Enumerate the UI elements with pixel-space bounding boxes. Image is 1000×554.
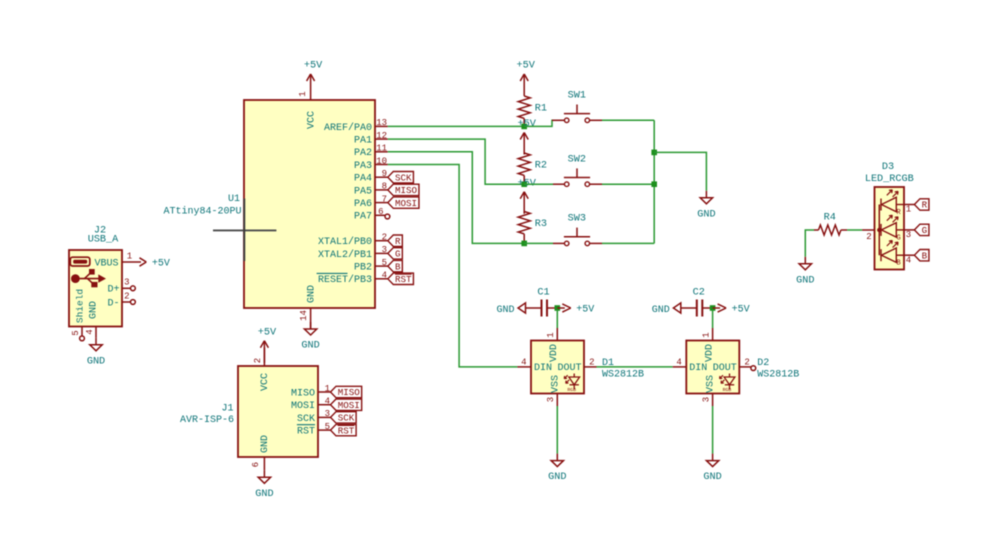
power +5V at J2 VBUS [140, 258, 147, 262]
svg-text:VCC: VCC [307, 111, 318, 129]
D3 pin 1 R [904, 204, 914, 206]
global label SCK at J1 [331, 412, 357, 423]
svg-text:SW2: SW2 [568, 155, 586, 166]
ground at R4 [804, 257, 806, 264]
svg-text:D-: D- [107, 298, 119, 309]
U1 pin 8 PA5 [375, 189, 388, 191]
svg-text:D3: D3 [882, 162, 894, 173]
ground at switch bus [705, 191, 707, 198]
svg-text:GND: GND [89, 301, 100, 319]
U1 pin 1 VCC [310, 96, 312, 101]
svg-text:5: 5 [71, 330, 81, 335]
svg-text:12: 12 [376, 131, 387, 141]
wire +5V junction to D1 VDD [556, 310, 558, 328]
svg-text:MOSI: MOSI [395, 198, 417, 209]
svg-text:SW3: SW3 [568, 214, 586, 225]
switch SW1 [552, 119, 564, 121]
svg-text:+5V: +5V [517, 61, 536, 72]
svg-text:4: 4 [906, 255, 911, 265]
svg-text:G: G [395, 249, 401, 260]
D2 pin 1 VDD [712, 328, 714, 341]
U1 pin 11 PA2 [375, 151, 388, 153]
switch SW3 [553, 242, 564, 244]
svg-text:J1: J1 [221, 404, 233, 415]
svg-text:+5V: +5V [732, 305, 750, 316]
svg-text:1: 1 [906, 205, 911, 215]
svg-text:U1: U1 [228, 194, 240, 205]
LED D3 body LED_RCGB [875, 187, 905, 270]
D1 pin 2 DOUT [584, 366, 597, 368]
J2 pin 1 VBUS [122, 261, 141, 263]
svg-text:GND: GND [548, 472, 566, 483]
svg-text:MOSI: MOSI [338, 400, 360, 411]
junction C2 +5V [710, 305, 716, 311]
svg-text:ATtiny84-20PU: ATtiny84-20PU [163, 206, 241, 218]
wire D1 VSS to ground [556, 406, 558, 454]
svg-text:+5V: +5V [518, 119, 537, 130]
D3 pin 2 common [862, 229, 874, 231]
svg-text:RGB: RGB [567, 387, 576, 393]
power +5V at U1 VCC [310, 74, 312, 96]
svg-text:PB2: PB2 [354, 263, 372, 274]
junction R2-PA1-SW2 [521, 181, 527, 187]
junction C1 +5V [555, 305, 561, 311]
wire PA1 to R2 junction [388, 139, 522, 184]
connector J2 body USB_A [69, 250, 122, 327]
svg-text:2: 2 [124, 291, 129, 301]
svg-text:USB_A: USB_A [88, 235, 119, 246]
svg-text:4: 4 [325, 397, 330, 407]
wire D1 DOUT to D2 DIN [597, 366, 673, 368]
wire bus to GND [654, 152, 706, 190]
svg-text:B: B [395, 261, 401, 272]
junction R3-PA2-SW3 [521, 241, 527, 247]
svg-text:2: 2 [744, 357, 749, 367]
svg-text:8: 8 [382, 182, 387, 192]
svg-text:RST: RST [338, 425, 355, 436]
svg-text:SCK: SCK [338, 413, 355, 424]
global label SCK at U1 PA4 [388, 172, 414, 183]
U1 pin 14 GND [310, 308, 312, 329]
switch common bus wire [653, 120, 655, 243]
J1 pin 3 SCK [318, 416, 331, 418]
global label MISO at U1 PA5 [388, 184, 419, 195]
svg-text:+5V: +5V [152, 259, 170, 270]
wire R1 junction to SW1 [524, 120, 553, 126]
svg-text:3: 3 [124, 278, 129, 288]
svg-text:PA6: PA6 [354, 199, 372, 210]
svg-text:DOUT: DOUT [557, 363, 581, 374]
svg-text:SW1: SW1 [568, 91, 586, 102]
LED D2 body WS2812B [686, 341, 739, 394]
global label R at U1 PB0 [388, 235, 403, 246]
wire SW2 to bus [602, 183, 654, 185]
svg-text:SCK: SCK [297, 414, 315, 425]
svg-text:7: 7 [382, 194, 387, 204]
svg-text:10: 10 [376, 156, 387, 166]
power +5V at R3 [523, 192, 525, 214]
svg-text:3: 3 [382, 245, 387, 255]
D3 pin 4 B [904, 254, 914, 256]
D1 pin 3 VSS [556, 394, 558, 407]
svg-text:MISO: MISO [291, 388, 315, 399]
U1 pin 5 PB2 [375, 265, 388, 267]
svg-text:RST: RST [297, 427, 315, 438]
U1 pin 7 PA6 [375, 202, 388, 204]
svg-text:VBUS: VBUS [94, 258, 118, 269]
svg-text:3: 3 [546, 397, 556, 402]
svg-text:1: 1 [298, 91, 308, 96]
ground at D1 VSS [556, 454, 558, 461]
svg-text:DIN: DIN [689, 363, 707, 374]
svg-text:DOUT: DOUT [713, 363, 737, 374]
svg-text:VSS: VSS [550, 375, 561, 393]
wire +5V junction to D2 VDD [712, 310, 714, 328]
svg-text:RGB: RGB [723, 387, 732, 393]
power +5V at C2 [713, 307, 721, 309]
D1 pin 1 VDD [556, 328, 558, 341]
svg-text:R3: R3 [535, 219, 547, 230]
svg-text:WS2812B: WS2812B [602, 369, 644, 380]
wire D2 VSS to ground [712, 406, 714, 454]
wire R4 to ground [805, 230, 814, 257]
svg-text:PA5: PA5 [354, 186, 372, 197]
D3 internal LED B [880, 249, 882, 261]
D3 pin 3 G [904, 229, 914, 231]
svg-text:GND: GND [796, 275, 814, 286]
global label B at D3 [914, 250, 929, 261]
svg-text:R1: R1 [535, 104, 547, 115]
svg-text:11: 11 [376, 144, 387, 154]
ground at U1 pin 14 [310, 322, 312, 329]
capacitor C2 [696, 300, 698, 317]
svg-text:PA4: PA4 [354, 174, 372, 185]
IC U1 ATtiny84-20PU body [244, 100, 375, 308]
svg-text:GND: GND [301, 341, 319, 352]
svg-text:WS2812B: WS2812B [757, 369, 799, 380]
global label RST at J1 [331, 424, 357, 435]
J1 pin 4 MOSI [318, 404, 331, 406]
svg-text:AVR-ISP-6: AVR-ISP-6 [180, 415, 234, 426]
svg-text:C1: C1 [537, 288, 549, 299]
wire PA2 to R3 junction [388, 152, 522, 244]
svg-text:D+: D+ [107, 285, 119, 296]
svg-text:9: 9 [382, 169, 387, 179]
svg-text:RESET/PB3: RESET/PB3 [318, 274, 372, 286]
J1 pin 2 VCC [263, 348, 265, 366]
junction R1-PA0-SW1 [521, 124, 527, 130]
ground at D2 VSS [712, 454, 714, 461]
svg-text:D2: D2 [757, 358, 769, 369]
D3 internal LED G [880, 224, 882, 236]
svg-text:+5V: +5V [304, 61, 323, 72]
svg-text:3: 3 [906, 230, 911, 240]
wire R4 to D3 pin 2 [847, 229, 862, 231]
svg-text:R: R [922, 200, 928, 211]
svg-text:2: 2 [253, 358, 263, 363]
svg-text:VCC: VCC [260, 373, 271, 391]
wire SW3 to bus [602, 242, 654, 244]
ground at J2 pin 4 [95, 338, 97, 345]
svg-text:1: 1 [325, 384, 330, 394]
J1 pin 1 MISO [318, 391, 331, 393]
power +5V at J1 VCC [263, 341, 265, 363]
svg-text:AREF/PA0: AREF/PA0 [324, 122, 372, 134]
D3 internal LED R [880, 199, 882, 211]
capacitor C1 [541, 300, 543, 317]
LED D1 body WS2812B [531, 341, 584, 394]
svg-text:+5V: +5V [576, 305, 594, 316]
svg-text:+5V: +5V [258, 327, 277, 338]
wire SW1 to bus [602, 119, 654, 121]
svg-text:GND: GND [496, 305, 514, 316]
USB trident icon [71, 274, 80, 283]
D1 pin 4 DIN [517, 366, 531, 368]
J1 pin 6 GND [263, 457, 265, 470]
svg-text:VDD: VDD [704, 344, 715, 362]
global label MOSI at J1 [331, 399, 362, 410]
U1 pin 2 XTAL1/PB0 [375, 240, 388, 242]
global label RST at U1 PB3 [388, 273, 414, 284]
svg-text:PA3: PA3 [354, 161, 372, 172]
svg-text:14: 14 [299, 310, 309, 321]
U1 pin 6 PA7 [375, 214, 385, 216]
svg-text:4: 4 [85, 329, 95, 334]
junction bus SW2 row [651, 181, 657, 187]
connector J1 body AVR-ISP-6 [238, 366, 318, 457]
svg-text:SCK: SCK [395, 172, 412, 183]
svg-text:2: 2 [589, 357, 594, 367]
junction bus to GND branch [651, 150, 657, 156]
J2 pin 4 GND [95, 327, 97, 338]
U1 pin 3 XTAL2/PB1 [375, 252, 388, 254]
svg-text:5: 5 [382, 258, 387, 268]
svg-text:1: 1 [546, 332, 556, 337]
D2 pin 3 VSS [712, 394, 714, 407]
svg-text:XTAL2/PB1: XTAL2/PB1 [318, 249, 372, 261]
svg-text:1: 1 [701, 332, 711, 337]
svg-text:R2: R2 [535, 161, 547, 172]
svg-text:GND: GND [307, 285, 318, 303]
svg-text:PA1: PA1 [354, 136, 372, 147]
svg-text:B: B [896, 260, 900, 268]
svg-text:GND: GND [703, 472, 721, 483]
D3 anode junction dot [877, 228, 881, 232]
svg-text:2: 2 [866, 232, 871, 242]
svg-text:GND: GND [697, 209, 715, 220]
U1 pin 12 PA1 [375, 138, 388, 140]
J1 pin 5 RST [318, 429, 331, 431]
power +5V at R2 [523, 133, 525, 155]
svg-text:PA2: PA2 [354, 148, 372, 159]
wire PA0 to R1 junction [388, 125, 522, 127]
svg-text:C2: C2 [693, 288, 705, 299]
svg-text:G: G [896, 234, 900, 242]
global label G at U1 PB1 [388, 248, 403, 259]
D1 internal LED icon [573, 374, 575, 378]
global label MOSI at U1 PA6 [388, 197, 419, 208]
resistor R1 [518, 96, 530, 118]
svg-text:DIN: DIN [534, 363, 552, 374]
wire R3 junction to SW3 [524, 242, 553, 244]
svg-text:PA7: PA7 [354, 212, 372, 223]
J2 pin 3 D+ no-connect [122, 287, 130, 289]
svg-text:RST: RST [395, 274, 412, 285]
USB receptacle icon [70, 257, 90, 266]
svg-text:GND: GND [652, 305, 670, 316]
ground at J1 pin 6 [263, 470, 265, 477]
svg-text:GND: GND [87, 356, 105, 367]
svg-text:6: 6 [251, 462, 261, 467]
J2 pin 2 D- no-connect [122, 301, 130, 303]
resistor R2 [518, 153, 530, 175]
global label MISO at J1 [331, 386, 362, 397]
D3 common anode line [878, 205, 880, 256]
svg-text:6: 6 [378, 207, 383, 217]
resistor R3 [518, 212, 530, 234]
svg-text:LED_RCGB: LED_RCGB [865, 174, 914, 185]
svg-text:3: 3 [325, 409, 330, 419]
svg-text:13: 13 [376, 118, 387, 128]
D2 pin 2 DOUT [739, 366, 751, 368]
U1 pin 10 PA3 [375, 164, 388, 166]
svg-text:XTAL1/PB0: XTAL1/PB0 [318, 236, 372, 248]
svg-text:MOSI: MOSI [291, 401, 315, 412]
D2 pin 4 DIN [673, 366, 687, 368]
global label B at U1 PB2 [388, 260, 403, 271]
svg-text:3: 3 [701, 397, 711, 402]
svg-text:2: 2 [382, 233, 387, 243]
svg-text:GND: GND [260, 435, 271, 453]
wire PA3 to D1 DIN [388, 165, 518, 367]
svg-text:4: 4 [676, 357, 681, 367]
svg-text:R4: R4 [824, 213, 836, 224]
svg-text:1: 1 [127, 251, 132, 261]
svg-text:4: 4 [382, 271, 387, 281]
svg-text:4: 4 [521, 357, 526, 367]
U1 pin 9 PA4 [375, 176, 388, 178]
U1 pin 13 AREF/PA0 [375, 125, 388, 127]
J2 pin 5 shield no-connect [81, 327, 83, 337]
switch SW2 [553, 183, 564, 185]
svg-text:Shield: Shield [75, 289, 86, 323]
svg-text:R: R [395, 236, 401, 247]
svg-text:5: 5 [325, 422, 330, 432]
cursor crosshair [213, 229, 276, 231]
svg-text:MISO: MISO [395, 185, 418, 196]
svg-text:GND: GND [255, 489, 273, 500]
global label R at D3 [914, 199, 929, 210]
power +5V at R1 [523, 74, 525, 96]
svg-text:B: B [922, 250, 928, 261]
D2 internal LED icon [729, 374, 731, 378]
global label G at D3 [914, 224, 929, 235]
svg-text:VSS: VSS [706, 375, 717, 393]
svg-text:G: G [922, 225, 928, 236]
power +5V at C1 [557, 307, 565, 309]
wire R2 junction to SW2 [524, 183, 553, 185]
svg-text:MISO: MISO [338, 387, 361, 398]
svg-text:VDD: VDD [549, 344, 560, 362]
resistor R4 [814, 229, 819, 231]
U1 pin 4 RESET/PB3 [375, 278, 388, 280]
